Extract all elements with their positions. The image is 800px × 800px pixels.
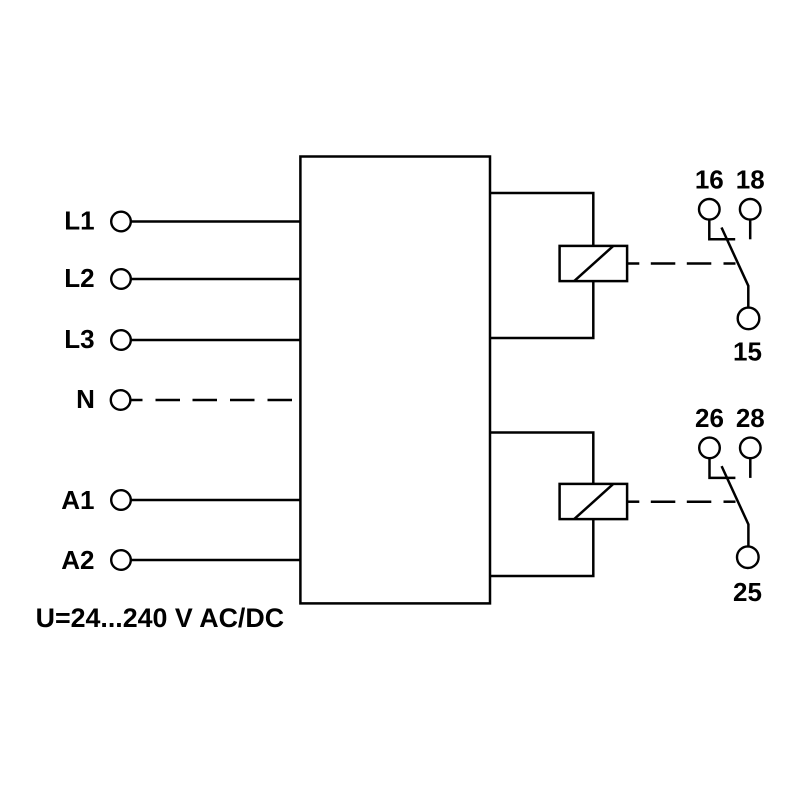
relay coil K1 <box>560 246 628 281</box>
wire L2 <box>131 278 301 281</box>
svg-text:N: N <box>76 384 95 414</box>
svg-text:L3: L3 <box>64 324 94 354</box>
contact arm 25 <box>722 466 749 546</box>
svg-text:15: 15 <box>733 337 762 367</box>
terminal 16 <box>699 199 720 220</box>
link K2 to contact (dashed) <box>627 500 735 503</box>
wire N (dashed) <box>130 399 292 402</box>
terminal A1 <box>111 490 131 510</box>
wire A1 <box>131 499 301 502</box>
svg-text:A2: A2 <box>61 545 94 575</box>
contact arm 15 <box>722 228 749 308</box>
terminal A2 <box>111 550 131 570</box>
svg-text:L1: L1 <box>64 206 94 236</box>
terminal L1 <box>111 212 131 232</box>
link K1 to contact (dashed) <box>627 262 735 265</box>
svg-text:26: 26 <box>695 403 724 433</box>
svg-text:L2: L2 <box>64 263 94 293</box>
svg-text:18: 18 <box>736 165 765 195</box>
terminal 18 <box>740 199 761 220</box>
svg-text:25: 25 <box>733 577 762 607</box>
pin 26 lead <box>710 458 736 478</box>
terminal L2 <box>111 269 131 289</box>
svg-text:A1: A1 <box>61 485 94 515</box>
wire coil K2 loop <box>490 433 593 484</box>
wire L3 <box>131 339 301 342</box>
pin 28 lead <box>749 458 752 478</box>
terminal 28 <box>740 438 761 459</box>
wire L1 <box>131 220 301 223</box>
svg-text:16: 16 <box>695 165 724 195</box>
wire coil K1 loop <box>490 193 593 246</box>
terminal L3 <box>111 330 131 350</box>
terminal 15 <box>738 308 760 330</box>
pin 18 lead <box>749 220 752 240</box>
svg-text:U=24...240 V AC/DC: U=24...240 V AC/DC <box>36 603 284 633</box>
svg-text:28: 28 <box>736 403 765 433</box>
terminal 25 <box>737 546 759 568</box>
terminal N <box>111 390 131 410</box>
wire A2 <box>131 559 301 562</box>
pin 16 lead <box>709 220 735 240</box>
relay coil K2 <box>560 484 628 519</box>
device body box <box>300 157 490 604</box>
terminal 26 <box>699 438 720 459</box>
